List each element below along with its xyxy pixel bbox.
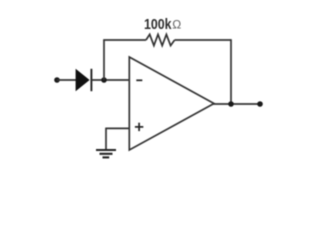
wire : input terminal to diode anode (57, 79, 76, 81)
op-amp U1 : plus sign (non-inverting input) (135, 126, 143, 128)
ground (96, 149, 116, 151)
node B : junction dot at inverting input (101, 77, 107, 83)
wire : non-inverting input leg (106, 127, 130, 129)
resistor R1 : 100k zigzag (146, 34, 175, 45)
wire : top feedback left segment (103, 39, 146, 41)
wire : diode cathode to op-amp inverting input (91, 79, 129, 81)
wire : op-amp output (213, 103, 260, 105)
wire : junction up to feedback branch (103, 40, 105, 80)
diode D1 : cathode bar (90, 69, 92, 91)
diode D1 : anode triangle (76, 69, 90, 91)
wire : top feedback right segment (175, 39, 231, 41)
op-amp U1 : triangle body (129, 57, 214, 150)
svg-text:100k: 100k (144, 16, 172, 33)
svg-text:Ω: Ω (172, 18, 181, 32)
node OUT : output terminal dot (257, 101, 263, 107)
node C : output junction dot (feedback tap) (228, 101, 234, 107)
wire : down to ground (105, 128, 107, 150)
op-amp U1 : minus sign (inverting input) (136, 79, 142, 81)
node A : input terminal dot (54, 77, 60, 83)
wire : feedback down to output node (230, 39, 232, 104)
